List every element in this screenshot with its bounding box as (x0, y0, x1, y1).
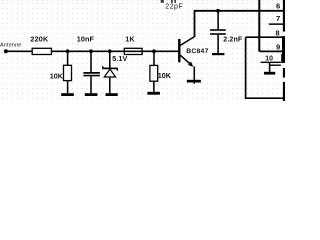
svg-text:220K: 220K (30, 34, 49, 43)
ground (under second 10K) (147, 92, 160, 95)
node junction on top wire (216, 9, 220, 13)
svg-text:10K: 10K (158, 71, 172, 80)
resistor 1K (124, 48, 142, 54)
ground (under zener) (106, 93, 118, 96)
transistor collector diagonal (180, 36, 195, 45)
cropped element right edge band (281, 0, 285, 101)
ground (under emitter) (187, 80, 201, 83)
wire 2.2nF to ground (217, 35, 219, 53)
svg-text:7: 7 (276, 14, 280, 23)
wire 10K second to ground (153, 81, 155, 92)
svg-text:10: 10 (265, 55, 273, 62)
ground (under 2.2nF) (212, 53, 224, 55)
wire pin10 to ground (269, 62, 271, 72)
grid dots (2, 0, 283, 99)
wire junction A down (67, 51, 69, 65)
node junction A (66, 49, 70, 53)
node junction D (152, 49, 156, 53)
svg-text:8: 8 (275, 28, 279, 37)
wire R220K to transistor base (51, 50, 179, 52)
svg-text:10K: 10K (50, 71, 64, 80)
svg-text:9: 9 (276, 42, 280, 51)
capacitor 2.2nF (210, 30, 226, 34)
svg-text:10nF: 10nF (77, 34, 95, 43)
wire junction B down to capacitor (90, 51, 92, 72)
transistor Q1 BC847 base bar (178, 39, 180, 62)
resistor 10K (second) (150, 65, 158, 81)
wire junction D down (153, 51, 155, 65)
input terminal node (4, 49, 8, 53)
capacitor 10nF (83, 73, 100, 76)
wire zener to ground (109, 77, 111, 93)
wire input to R 220K (6, 50, 32, 52)
IC U1 left edge (258, 0, 260, 51)
svg-text:2.2nF: 2.2nF (223, 36, 243, 43)
resistor 10K (first) (64, 65, 72, 80)
wire junction C down to zener (109, 51, 111, 68)
zener diode 5.1V (102, 66, 117, 77)
ground (pin 10) (264, 72, 275, 75)
wire emitter down (193, 67, 195, 80)
svg-text:Antenne: Antenne (0, 42, 21, 48)
IC bottom edge of upper section (259, 50, 285, 52)
wire collector riser to top (195, 11, 286, 37)
wire 10K to ground (67, 81, 69, 94)
wire pin8 down and along bottom (246, 37, 285, 98)
ground (under 10nF) (85, 93, 98, 96)
svg-text:22pF: 22pF (165, 4, 183, 11)
resistor 220K (32, 48, 51, 54)
svg-text:6: 6 (276, 1, 280, 10)
svg-text:BC847: BC847 (186, 48, 208, 55)
wire capacitor to ground (90, 76, 92, 93)
node junction B (89, 49, 93, 53)
wire top junction down to 2.2nF (217, 11, 219, 29)
ground (under 10K) (61, 93, 74, 96)
transistor emitter diagonal with arrow (180, 55, 192, 65)
remnant capacitor 22pF (cropped at top edge) (171, 0, 173, 3)
node junction C (108, 49, 112, 53)
svg-text:1K: 1K (125, 34, 135, 43)
